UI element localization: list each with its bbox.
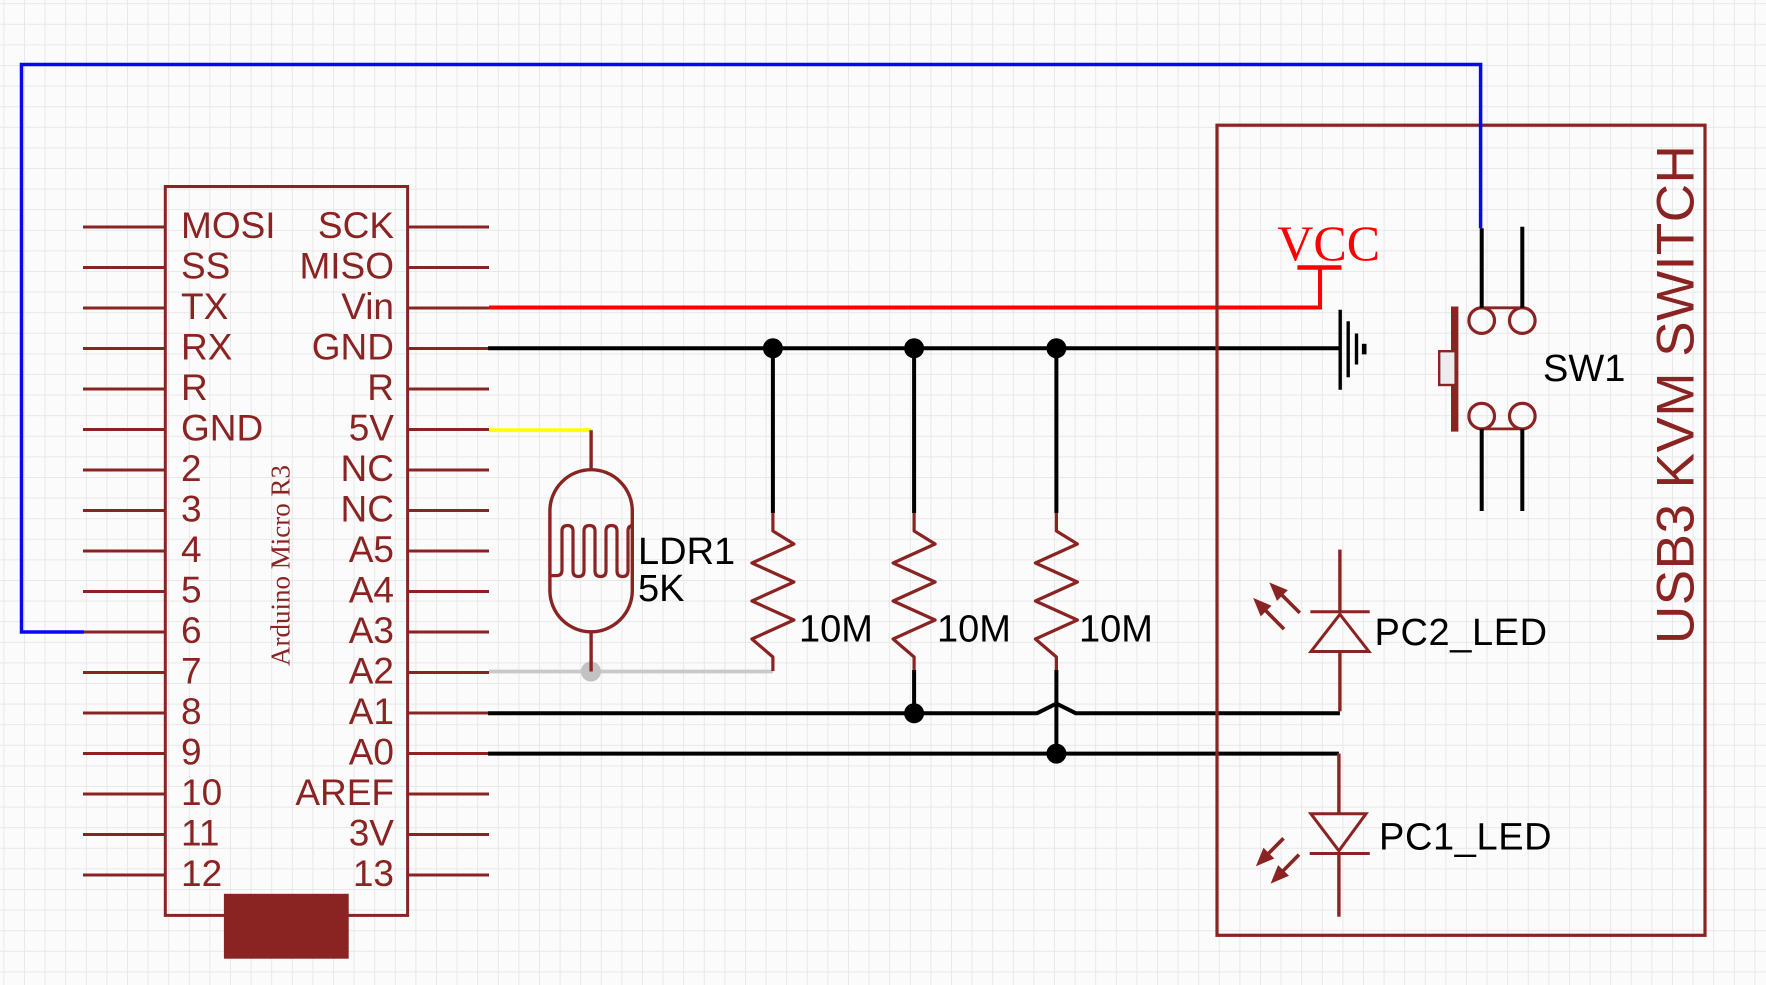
- svg-text:MISO: MISO: [299, 246, 394, 287]
- svg-text:SCK: SCK: [318, 205, 394, 246]
- svg-text:LDR1: LDR1: [638, 531, 735, 573]
- pin stub right 13: [408, 874, 489, 877]
- svg-text:10: 10: [181, 772, 222, 813]
- svg-text:10M: 10M: [1079, 609, 1153, 651]
- pin stub left 7: [83, 671, 165, 674]
- wire blue pin6 to SW1: [22, 65, 1481, 633]
- pin stub left RX: [83, 347, 165, 350]
- pin stub right SCK: [408, 226, 489, 229]
- svg-text:3: 3: [181, 489, 202, 530]
- svg-text:TX: TX: [181, 286, 228, 327]
- pin stub right A0: [408, 752, 489, 755]
- wire black R3 to A0: [1054, 670, 1058, 754]
- pin stub left 5: [83, 590, 165, 593]
- KVM switch box U2: [1217, 125, 1705, 935]
- svg-text:11: 11: [181, 813, 219, 854]
- svg-text:A4: A4: [349, 570, 394, 611]
- junction A0/R3: [1046, 744, 1066, 764]
- LED PC1 arrow 1: [1266, 838, 1283, 855]
- svg-text:4: 4: [181, 529, 202, 570]
- wire black A0 net: [488, 752, 1339, 756]
- svg-text:R: R: [367, 367, 394, 408]
- switch SW1 contacts: [1482, 306, 1523, 309]
- svg-text:3V: 3V: [349, 813, 395, 854]
- pin stub right A5: [408, 550, 489, 553]
- svg-text:5K: 5K: [638, 568, 684, 610]
- junction GND/R1: [763, 338, 783, 358]
- svg-text:2: 2: [181, 448, 202, 489]
- pin stub left SS: [83, 266, 165, 269]
- svg-text:6: 6: [181, 610, 202, 651]
- LED PC2 arrow 2: [1280, 593, 1300, 613]
- wire yellow 5V to LDR1: [489, 428, 591, 432]
- pin stub right 5V: [408, 428, 489, 431]
- svg-text:9: 9: [181, 732, 202, 773]
- svg-text:A5: A5: [349, 529, 394, 570]
- pin stub left 6: [83, 631, 165, 634]
- pin stub left 9: [83, 752, 165, 755]
- svg-text:A3: A3: [349, 610, 394, 651]
- pin stub right 3V: [408, 833, 489, 836]
- junction A1/R2: [904, 703, 924, 723]
- svg-text:USB3 KVM SWITCH: USB3 KVM SWITCH: [1647, 145, 1706, 644]
- resistor R1 10M: [771, 348, 775, 513]
- svg-text:NC: NC: [341, 448, 394, 489]
- svg-text:VCC: VCC: [1277, 215, 1380, 271]
- svg-text:Arduino Micro R3: Arduino Micro R3: [266, 465, 296, 666]
- svg-text:A0: A0: [349, 732, 394, 773]
- svg-text:5: 5: [181, 570, 202, 611]
- junction GND/R3: [1046, 338, 1066, 358]
- pin stub left 10: [83, 793, 165, 796]
- svg-text:Vin: Vin: [341, 286, 394, 327]
- pin stub right A1: [408, 712, 489, 715]
- svg-text:SS: SS: [181, 246, 230, 287]
- junction gray LDR1/A2: [581, 662, 601, 682]
- switch SW1 actuator bar: [1451, 307, 1458, 432]
- svg-text:10M: 10M: [937, 609, 1011, 651]
- svg-text:A1: A1: [349, 691, 394, 732]
- svg-text:5V: 5V: [349, 408, 395, 449]
- pin stub left 11: [83, 833, 165, 836]
- resistor R3 10M: [1054, 348, 1058, 513]
- pin stub left R: [83, 388, 165, 391]
- svg-text:MOSI: MOSI: [181, 205, 276, 246]
- pin stub right R: [408, 388, 489, 391]
- LED PC2_LED: [1338, 550, 1341, 612]
- svg-text:SW1: SW1: [1543, 348, 1625, 390]
- wire gray A2 to R1: [489, 670, 773, 674]
- pin stub right A2: [408, 671, 489, 674]
- junction GND/R2: [904, 338, 924, 358]
- svg-text:13: 13: [353, 853, 394, 894]
- switch SW1 pin wires: [1480, 228, 1484, 307]
- pin stub right A3: [408, 631, 489, 634]
- svg-text:R: R: [181, 367, 208, 408]
- pin stub left GND: [83, 428, 165, 431]
- photoresistor LDR1 body: [589, 430, 592, 470]
- pin stub right AREF: [408, 793, 489, 796]
- LED PC1 arrow 2: [1281, 855, 1299, 873]
- pin stub left 8: [83, 712, 165, 715]
- pin stub right MISO: [408, 266, 489, 269]
- pin stub right Vin: [408, 307, 489, 310]
- svg-text:GND: GND: [181, 408, 263, 449]
- svg-text:PC1_LED: PC1_LED: [1379, 817, 1552, 859]
- pin stub right A4: [408, 590, 489, 593]
- Arduino Micro R3 body U1: [165, 187, 407, 916]
- wire black GND net: [488, 346, 1340, 350]
- power VCC bar: [1297, 265, 1341, 270]
- wire black A1 net with hop: [488, 704, 1340, 714]
- svg-text:GND: GND: [312, 327, 394, 368]
- USB connector block: [224, 894, 349, 959]
- pin stub right NC: [408, 469, 489, 472]
- resistor R2 10M: [912, 348, 916, 513]
- switch SW1 button: [1439, 351, 1455, 385]
- svg-text:AREF: AREF: [295, 772, 394, 813]
- ground symbol: [1338, 310, 1341, 390]
- pin stub left MOSI: [83, 226, 165, 229]
- svg-text:12: 12: [181, 853, 222, 894]
- pin stub right NC: [408, 509, 489, 512]
- pin stub right GND: [408, 347, 489, 350]
- svg-text:A2: A2: [349, 651, 394, 692]
- svg-text:NC: NC: [341, 489, 394, 530]
- pin stub left 4: [83, 550, 165, 553]
- svg-text:PC2_LED: PC2_LED: [1375, 612, 1548, 654]
- svg-text:RX: RX: [181, 327, 232, 368]
- svg-text:7: 7: [181, 651, 202, 692]
- LED PC2 arrow 1: [1264, 609, 1284, 630]
- svg-text:8: 8: [181, 691, 202, 732]
- svg-text:10M: 10M: [799, 609, 873, 651]
- wire black R2 to A1: [912, 670, 916, 713]
- pin stub left 3: [83, 509, 165, 512]
- LED PC1_LED: [1337, 754, 1340, 814]
- pin stub left 12: [83, 874, 165, 877]
- pin stub left 2: [83, 469, 165, 472]
- wire red Vin to VCC: [489, 268, 1320, 308]
- pin stub left TX: [83, 307, 165, 310]
- wire LDR1 bottom pin: [589, 632, 592, 672]
